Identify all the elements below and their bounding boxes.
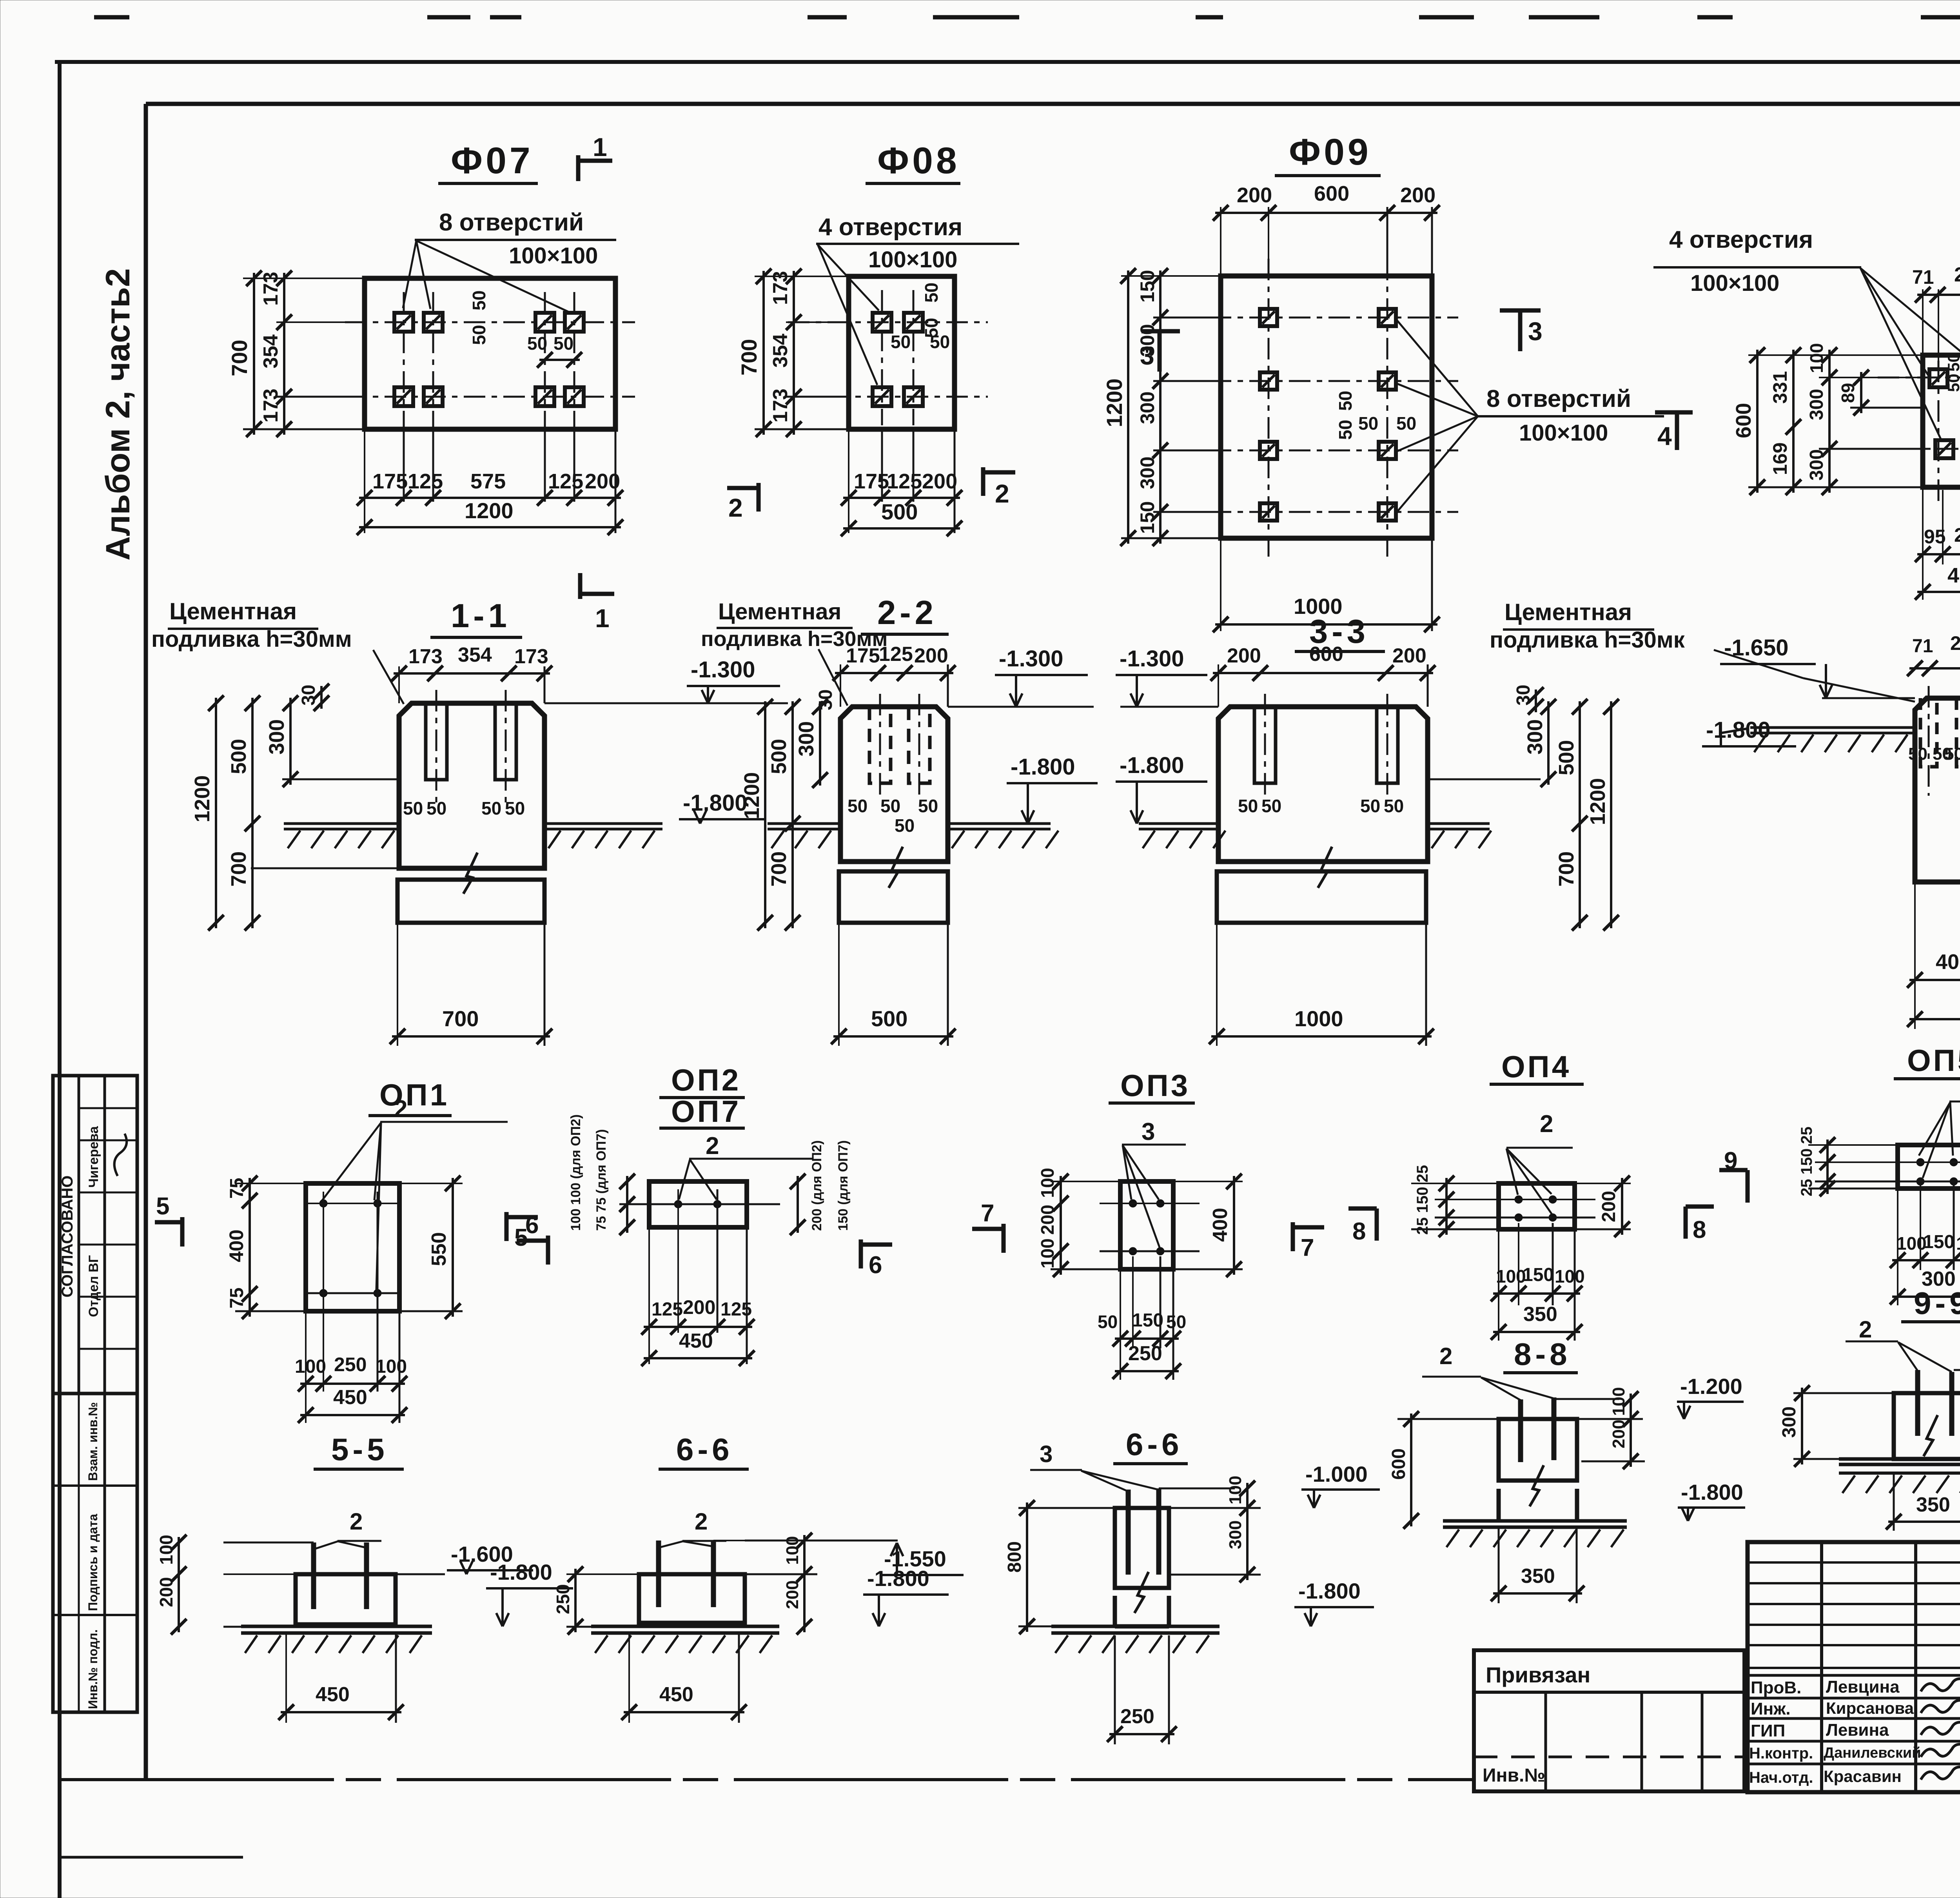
ОП5 section mark 9 left xyxy=(1746,1170,1750,1203)
svg-text:1200: 1200 xyxy=(740,772,764,819)
6-6(ОП3) base plate xyxy=(1051,1625,1220,1628)
3-3 top dims 200/600/200 xyxy=(1218,664,1219,707)
svg-text:4 отверстия: 4 отверстия xyxy=(818,214,962,241)
ОП1 bottom dims 100/250/100 and 450 xyxy=(305,1311,307,1423)
svg-text:100: 100 xyxy=(1609,1387,1628,1416)
svg-text:169: 169 xyxy=(1769,443,1791,475)
svg-text:200: 200 xyxy=(156,1577,176,1607)
svg-text:331: 331 xyxy=(1769,371,1791,404)
svg-text:100: 100 xyxy=(295,1356,326,1377)
svg-text:100×100: 100×100 xyxy=(868,247,957,272)
svg-text:50: 50 xyxy=(1335,420,1356,440)
svg-text:-1.300: -1.300 xyxy=(999,646,1063,671)
svg-text:200: 200 xyxy=(1227,644,1261,667)
svg-text:600: 600 xyxy=(1314,182,1349,205)
svg-text:-1.000: -1.000 xyxy=(1305,1462,1368,1486)
Ф09 top dims 200/600/200 xyxy=(1220,207,1221,276)
8-8 bottom dim 350 xyxy=(1498,1527,1500,1603)
stamp bottom tick xyxy=(60,1711,137,1714)
Ф09 section mark 3 left xyxy=(1142,329,1180,334)
svg-text:-1.650: -1.650 xyxy=(1724,635,1788,660)
Ф07 left dims 173/354/173 xyxy=(276,321,365,323)
3-3 ground right xyxy=(1428,822,1490,825)
1-1 bottom dim 700 xyxy=(397,923,398,1046)
svg-text:173: 173 xyxy=(260,388,282,423)
svg-text:Привязан: Привязан xyxy=(1486,1662,1590,1687)
2-2 column outline xyxy=(840,707,948,862)
svg-text:100×100: 100×100 xyxy=(1519,420,1608,446)
svg-text:500: 500 xyxy=(871,1006,907,1031)
sheet border left line xyxy=(58,62,62,1898)
svg-text:50: 50 xyxy=(1944,353,1960,372)
svg-text:550: 550 xyxy=(428,1232,450,1266)
svg-text:6: 6 xyxy=(525,1212,539,1239)
svg-text:175: 175 xyxy=(372,470,408,493)
ОП4 bolts xyxy=(1515,1196,1523,1203)
svg-text:7: 7 xyxy=(1301,1234,1314,1261)
svg-text:100: 100 xyxy=(1896,1233,1927,1254)
ОП3 section mark 7 right xyxy=(1291,1222,1295,1251)
Ф09 left dim 1200 xyxy=(1121,275,1221,277)
svg-text:50: 50 xyxy=(848,796,867,816)
sheet top edge dashes xyxy=(94,15,129,20)
svg-text:Ф08: Ф08 xyxy=(877,140,960,181)
svg-text:350: 350 xyxy=(1916,1493,1950,1516)
svg-text:150: 150 xyxy=(1923,1232,1955,1252)
signature squiggle xyxy=(114,1134,127,1176)
8-8 base plate xyxy=(1443,1519,1627,1523)
inner frame bottom xyxy=(60,1778,1474,1781)
8-8 right dims 100/200 xyxy=(1554,1398,1619,1400)
svg-text:75: 75 xyxy=(227,1288,247,1308)
6-6 bottom dim 450 xyxy=(628,1633,630,1723)
svg-text:450: 450 xyxy=(679,1330,713,1352)
svg-text:-1.300: -1.300 xyxy=(1120,646,1184,671)
svg-text:ОП5: ОП5 xyxy=(1907,1043,1960,1078)
ОП2 section mark 6 right xyxy=(859,1239,863,1268)
svg-text:95: 95 xyxy=(1924,526,1946,548)
svg-text:50: 50 xyxy=(1944,374,1960,392)
svg-text:2-2: 2-2 xyxy=(877,594,937,631)
ОП3 left dims 100/200/100 xyxy=(1051,1181,1120,1182)
svg-text:-1.800: -1.800 xyxy=(490,1560,552,1584)
svg-text:-1.800: -1.800 xyxy=(1298,1579,1361,1603)
ОП3 section mark 7 left xyxy=(1002,1224,1006,1253)
ОП3 right dim 400 xyxy=(1173,1181,1243,1182)
svg-text:257: 257 xyxy=(1950,632,1960,654)
svg-text:250: 250 xyxy=(1128,1342,1162,1365)
9-9 column outline xyxy=(1894,1393,1960,1459)
svg-text:125: 125 xyxy=(548,470,583,493)
6-6 left dim 250 xyxy=(566,1573,639,1575)
Ф07 section mark 1 bottom xyxy=(578,573,583,599)
Ф08 left dim 700 xyxy=(755,276,849,277)
svg-text:50: 50 xyxy=(930,332,950,352)
svg-text:-1.800: -1.800 xyxy=(1011,754,1075,780)
ОП4 bottom dims 100/150/100 and 350 xyxy=(1498,1229,1499,1341)
1-1 anchor slots xyxy=(426,703,447,780)
svg-text:Н.контр.: Н.контр. xyxy=(1749,1745,1813,1762)
svg-text:Взам. инв.№: Взам. инв.№ xyxy=(86,1402,100,1481)
2-2 bottom dim 500 xyxy=(838,923,840,1046)
Ф010 plan left dims 600,331/169,100/300/300,89 xyxy=(1748,354,1923,356)
svg-text:100: 100 xyxy=(156,1535,176,1565)
svg-text:71: 71 xyxy=(1912,266,1934,288)
svg-text:1200: 1200 xyxy=(1586,778,1610,825)
Ф09 plan outline xyxy=(1221,276,1432,538)
ОП4 section mark 8 left xyxy=(1375,1208,1379,1241)
ОП5 bottom dims 100/150/100 and 300 xyxy=(1897,1189,1898,1305)
svg-text:350: 350 xyxy=(1523,1303,1557,1326)
2-2 ground left xyxy=(768,822,840,825)
ОП1 section mark 5 right xyxy=(505,1212,509,1241)
9-9 bottom dim 350 xyxy=(1893,1473,1895,1531)
svg-text:1000: 1000 xyxy=(1294,1006,1343,1031)
svg-text:354: 354 xyxy=(458,644,492,666)
svg-text:Цементная: Цементная xyxy=(1504,599,1632,625)
sheet border top line xyxy=(55,60,1960,64)
svg-text:500: 500 xyxy=(881,499,918,524)
svg-text:50: 50 xyxy=(505,798,525,818)
svg-text:5-5: 5-5 xyxy=(331,1432,388,1467)
svg-text:50: 50 xyxy=(1098,1312,1118,1332)
svg-text:-1.800: -1.800 xyxy=(1681,1480,1743,1504)
svg-text:173: 173 xyxy=(514,645,548,668)
8-8 column outline xyxy=(1499,1419,1577,1481)
9-9 base plate xyxy=(1839,1457,1960,1461)
svg-text:5: 5 xyxy=(156,1193,169,1220)
Ф010 plan bottom dims 95/210/95 and 400 xyxy=(1922,487,1924,600)
svg-text:71: 71 xyxy=(1912,636,1933,657)
svg-text:575: 575 xyxy=(470,470,506,493)
svg-text:100: 100 xyxy=(1555,1266,1585,1287)
svg-text:300: 300 xyxy=(265,719,289,755)
svg-text:ОП4: ОП4 xyxy=(1501,1049,1571,1084)
svg-text:7: 7 xyxy=(981,1200,994,1227)
6-6 base plate xyxy=(591,1625,779,1628)
svg-text:125: 125 xyxy=(408,470,443,493)
svg-text:173: 173 xyxy=(769,271,792,305)
svg-text:3: 3 xyxy=(1528,317,1543,346)
6-6(ОП3) lower piece xyxy=(1113,1596,1117,1626)
svg-text:50: 50 xyxy=(554,333,573,354)
svg-text:400: 400 xyxy=(1936,950,1960,974)
svg-text:125: 125 xyxy=(652,1299,683,1320)
svg-text:2: 2 xyxy=(1540,1110,1553,1138)
svg-text:300: 300 xyxy=(1523,719,1547,755)
svg-text:200: 200 xyxy=(1599,1191,1619,1222)
svg-text:50: 50 xyxy=(1261,796,1281,816)
svg-text:250: 250 xyxy=(1120,1705,1154,1728)
Ф07 centerlines xyxy=(345,321,635,323)
svg-text:50: 50 xyxy=(1335,391,1356,411)
title block signatures table xyxy=(1748,1542,1960,1792)
svg-text:50: 50 xyxy=(1384,796,1404,816)
svg-text:200 (для ОП2): 200 (для ОП2) xyxy=(809,1140,824,1231)
svg-text:200: 200 xyxy=(914,644,948,667)
6-6(ОП3) column outline xyxy=(1115,1508,1169,1588)
svg-text:1-1: 1-1 xyxy=(451,597,511,635)
Ф09 bottom dim 1000 xyxy=(1220,538,1221,631)
svg-text:100: 100 xyxy=(1226,1476,1245,1504)
5-5 bottom dim 450 xyxy=(285,1633,287,1723)
Ф07 bottom dims 175/125/575/125/200 xyxy=(364,429,365,533)
svg-text:6-6: 6-6 xyxy=(1126,1427,1183,1462)
6-6 rebar bars xyxy=(656,1541,661,1607)
svg-text:3: 3 xyxy=(1140,341,1154,370)
svg-text:50: 50 xyxy=(426,798,446,818)
2-2 ground right xyxy=(948,822,1051,825)
svg-text:210: 210 xyxy=(1954,524,1960,546)
svg-text:-1.800: -1.800 xyxy=(867,1566,929,1591)
inner frame top xyxy=(146,102,1960,106)
svg-text:200: 200 xyxy=(1037,1205,1058,1235)
svg-text:300: 300 xyxy=(1136,392,1158,424)
svg-text:100: 100 xyxy=(1037,1168,1058,1198)
svg-text:175: 175 xyxy=(854,470,889,493)
ОП2 plan outline xyxy=(649,1181,747,1227)
svg-text:450: 450 xyxy=(316,1683,350,1706)
svg-text:125: 125 xyxy=(720,1299,752,1320)
svg-text:50: 50 xyxy=(1166,1312,1186,1332)
svg-text:250: 250 xyxy=(334,1354,367,1375)
6-6 block outline xyxy=(639,1574,745,1623)
svg-text:173: 173 xyxy=(769,388,792,423)
9-9 rebar bars xyxy=(1915,1370,1920,1436)
svg-text:Ф07: Ф07 xyxy=(451,140,534,181)
svg-text:Цементная: Цементная xyxy=(169,598,297,624)
svg-text:подливка h=30мк: подливка h=30мк xyxy=(1490,627,1685,653)
leader fan to right holes xyxy=(1396,319,1478,416)
svg-text:Инж.: Инж. xyxy=(1751,1699,1791,1718)
Ф08 anchor holes xyxy=(873,313,891,332)
2-2 left dims xyxy=(764,701,766,928)
svg-text:Инв.№: Инв.№ xyxy=(1483,1765,1545,1786)
svg-text:50: 50 xyxy=(481,798,501,818)
svg-text:100: 100 xyxy=(1956,1233,1960,1254)
Ф010 plan centerlines xyxy=(1878,377,1960,379)
svg-text:100×100: 100×100 xyxy=(509,243,598,269)
leader lines to holes xyxy=(403,241,416,308)
Ф07 anchor holes xyxy=(394,313,413,332)
ОП2 bolts xyxy=(674,1200,682,1208)
ОП1 bolts xyxy=(319,1199,327,1207)
4-4 top dims 71/257/72/125/711/711/125 xyxy=(1909,667,1960,670)
svg-text:6: 6 xyxy=(869,1252,882,1279)
svg-text:8 отверстий: 8 отверстий xyxy=(439,209,584,236)
svg-text:700: 700 xyxy=(1555,851,1578,887)
Ф09 centerlines xyxy=(1170,317,1458,319)
svg-text:2: 2 xyxy=(695,1508,708,1535)
3-3 anchor slots xyxy=(1254,707,1276,783)
svg-text:100: 100 xyxy=(376,1356,407,1377)
svg-text:ОП2: ОП2 xyxy=(671,1063,741,1097)
svg-text:1: 1 xyxy=(595,604,610,633)
svg-text:4: 4 xyxy=(1657,421,1672,450)
svg-text:8-8: 8-8 xyxy=(1514,1337,1571,1372)
Ф08 plan outline xyxy=(849,276,955,429)
svg-text:700: 700 xyxy=(442,1006,479,1031)
svg-text:125: 125 xyxy=(879,643,913,666)
svg-text:75 75 (для ОП7): 75 75 (для ОП7) xyxy=(594,1129,609,1231)
5-5 base plate xyxy=(241,1625,432,1628)
svg-text:700: 700 xyxy=(227,340,252,376)
svg-text:50: 50 xyxy=(921,283,942,303)
inner frame left xyxy=(144,104,148,1780)
svg-text:300: 300 xyxy=(1806,389,1827,420)
svg-text:450: 450 xyxy=(659,1683,693,1706)
svg-text:100: 100 xyxy=(1037,1238,1058,1268)
svg-text:Чигерева: Чигерева xyxy=(86,1126,101,1188)
Ф08 section mark 2 left xyxy=(757,483,761,512)
svg-text:89: 89 xyxy=(1838,383,1858,403)
svg-text:Кирсанова: Кирсанова xyxy=(1826,1699,1914,1717)
ОП4 plan outline xyxy=(1499,1183,1575,1229)
svg-text:9: 9 xyxy=(1724,1147,1737,1174)
Ф010 plan holes xyxy=(1929,369,1947,387)
svg-text:300: 300 xyxy=(1226,1521,1245,1549)
3-3 column outline xyxy=(1218,707,1428,862)
svg-text:Нач.отд.: Нач.отд. xyxy=(1749,1769,1813,1786)
2-2 lower block xyxy=(839,871,948,923)
1-1 lower block xyxy=(397,880,544,923)
Ф09 section mark 3 top xyxy=(1500,308,1541,313)
svg-text:125: 125 xyxy=(887,470,922,493)
svg-text:50: 50 xyxy=(1358,413,1378,434)
svg-text:173: 173 xyxy=(408,645,443,668)
svg-text:50: 50 xyxy=(527,333,547,354)
Ф09 left dims 150/300/300/300/150 xyxy=(1153,317,1221,319)
svg-text:400: 400 xyxy=(1947,564,1960,587)
svg-text:подливка h=30мм: подливка h=30мм xyxy=(151,626,352,652)
svg-text:600: 600 xyxy=(1732,403,1755,438)
svg-text:200: 200 xyxy=(783,1580,802,1609)
ОП5 bolts xyxy=(1916,1158,1924,1166)
svg-text:2: 2 xyxy=(1439,1343,1452,1369)
leader fan xyxy=(1860,268,1929,377)
9-9 left dim 300 xyxy=(1793,1392,1894,1394)
2-2 hidden slots (dashed) xyxy=(869,707,891,783)
svg-text:150 (для ОП7): 150 (для ОП7) xyxy=(836,1140,851,1231)
svg-text:2: 2 xyxy=(1859,1316,1872,1343)
svg-text:1200: 1200 xyxy=(465,498,514,523)
title block Привязан box xyxy=(1474,1650,1744,1791)
svg-text:800: 800 xyxy=(1004,1541,1025,1573)
Ф010 plan top dims 71/257/72 xyxy=(1922,289,1924,355)
svg-text:ОП7: ОП7 xyxy=(671,1094,741,1129)
svg-text:200: 200 xyxy=(1237,183,1272,207)
svg-text:4 отверстия: 4 отверстия xyxy=(1669,226,1813,253)
Ф08 bottom dims 175/125/200 xyxy=(848,429,849,533)
Ф010 plan outline xyxy=(1923,355,1960,487)
8-8 left dim 600 xyxy=(1397,1418,1499,1420)
Ф07 left dim 700 xyxy=(243,278,365,279)
svg-text:Инв.№ подл.: Инв.№ подл. xyxy=(86,1629,100,1709)
svg-text:400: 400 xyxy=(225,1230,247,1262)
svg-text:Левцина: Левцина xyxy=(1826,1677,1900,1697)
svg-text:300: 300 xyxy=(1806,449,1827,481)
svg-text:200: 200 xyxy=(585,470,620,493)
svg-text:100 100 (для ОП2): 100 100 (для ОП2) xyxy=(568,1114,583,1231)
4-4 anchor slots xyxy=(1920,698,1937,767)
svg-text:50: 50 xyxy=(891,332,911,352)
svg-text:30: 30 xyxy=(815,690,836,710)
svg-text:9-9: 9-9 xyxy=(1914,1286,1960,1321)
svg-text:300: 300 xyxy=(1779,1406,1800,1438)
svg-text:354: 354 xyxy=(769,334,792,368)
svg-text:50: 50 xyxy=(1396,413,1416,434)
svg-text:2: 2 xyxy=(706,1132,719,1159)
svg-text:150: 150 xyxy=(1132,1310,1163,1331)
2-2 top dims 175/125/200 xyxy=(840,664,841,707)
svg-text:1: 1 xyxy=(593,132,607,161)
svg-text:350: 350 xyxy=(1521,1565,1555,1588)
svg-text:-1.800: -1.800 xyxy=(683,790,747,816)
5-5 left dims 100/200 xyxy=(223,1542,314,1544)
1-1 ground left xyxy=(284,822,399,825)
5-5 block outline xyxy=(296,1574,396,1624)
svg-text:ГИП: ГИП xyxy=(1751,1721,1785,1740)
1-1 ground right xyxy=(544,822,662,825)
svg-text:1200: 1200 xyxy=(191,775,214,822)
svg-text:30: 30 xyxy=(298,685,319,706)
6-6(ОП3) bottom dim 250 xyxy=(1114,1635,1116,1744)
svg-text:-1.200: -1.200 xyxy=(1680,1374,1742,1399)
svg-text:354: 354 xyxy=(260,334,282,368)
leader lines xyxy=(818,245,879,310)
svg-text:50: 50 xyxy=(880,796,900,816)
svg-text:75: 75 xyxy=(227,1178,247,1199)
svg-text:3: 3 xyxy=(1142,1118,1155,1145)
Ф09 anchor holes (8) xyxy=(1260,309,1277,326)
svg-text:2: 2 xyxy=(350,1508,363,1535)
6-6 right dims 200/100 xyxy=(713,1540,817,1541)
svg-text:400: 400 xyxy=(1209,1208,1232,1242)
6-6(ОП3) left dim 800 xyxy=(1018,1507,1115,1509)
svg-text:Подпись и дата: Подпись и дата xyxy=(86,1514,100,1611)
svg-text:500: 500 xyxy=(767,739,791,774)
Ф08 section mark 2 right xyxy=(981,467,985,496)
svg-text:300: 300 xyxy=(1136,457,1158,489)
svg-text:700: 700 xyxy=(737,339,761,376)
svg-text:3: 3 xyxy=(1040,1441,1053,1467)
svg-text:200: 200 xyxy=(1392,644,1426,667)
svg-text:257: 257 xyxy=(1954,263,1960,286)
left stamp box B (Взам.инв / Подпись и дата / Инв.№ подл.) xyxy=(53,1394,137,1712)
svg-text:25 150 25: 25 150 25 xyxy=(1414,1165,1431,1235)
svg-text:50: 50 xyxy=(1908,744,1927,764)
Ф08 left dims 173/354/173 xyxy=(786,321,849,323)
ОП3 bolts xyxy=(1129,1199,1137,1207)
6-6(ОП3) right dims 100/300 xyxy=(1159,1488,1235,1490)
Ф07 plan outline xyxy=(365,278,615,429)
svg-text:Альбом 2, часть2: Альбом 2, часть2 xyxy=(99,268,137,561)
4-4 bottom dims 400/1672 and 2072 xyxy=(1914,882,1916,1029)
svg-text:100: 100 xyxy=(1806,343,1827,373)
svg-text:50: 50 xyxy=(918,796,938,816)
3-3 lower block xyxy=(1217,871,1426,923)
ОП4 right dim 200 xyxy=(1575,1183,1631,1184)
ОП4 section mark 8 right xyxy=(1684,1207,1688,1239)
8-8 lower piece xyxy=(1497,1489,1501,1521)
svg-text:50: 50 xyxy=(1360,796,1380,816)
svg-text:300: 300 xyxy=(795,721,818,757)
4-4 ground left xyxy=(1750,726,1915,729)
svg-text:ПроВ.: ПроВ. xyxy=(1751,1678,1801,1697)
ОП3 bottom dims 50/150/50 and 250 xyxy=(1120,1269,1121,1380)
1-1 top dims 173/354/173 xyxy=(398,666,400,703)
ОП1 left dims 75/400/75 xyxy=(235,1183,306,1184)
